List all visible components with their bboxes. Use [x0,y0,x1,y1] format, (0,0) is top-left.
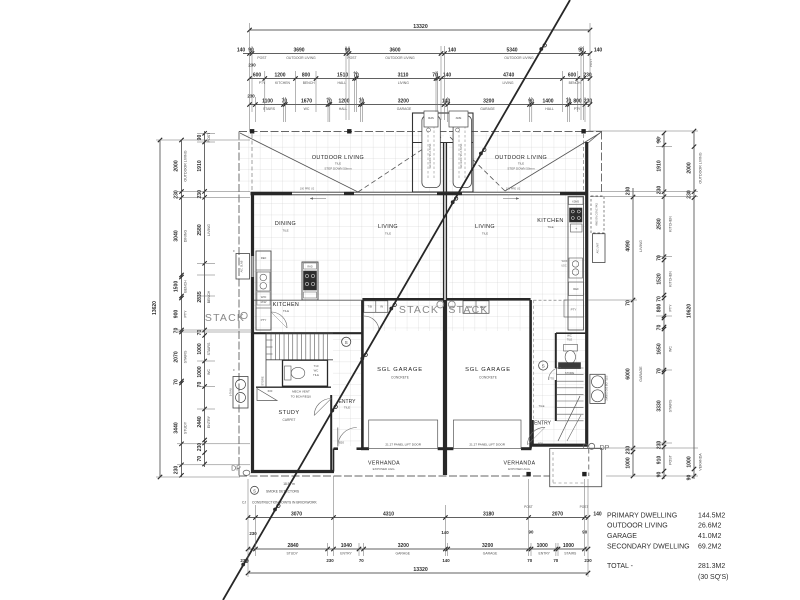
svg-text:REF: REF [573,287,579,291]
svg-text:TILE: TILE [335,162,341,166]
svg-text:70: 70 [527,558,532,563]
garage front wall right jamb garage 2 [521,447,532,450]
hws pad east side [591,196,604,233]
svg-text:LIVING: LIVING [398,81,409,85]
svg-text:70: 70 [359,98,365,104]
svg-text:70: 70 [656,368,662,374]
north wall solid segment dining [251,192,293,195]
svg-text:3040: 3040 [174,230,180,241]
svg-text:3440: 3440 [174,422,180,433]
svg-text:W/D: W/D [261,295,266,299]
svg-text:EXPOSED AGG.: EXPOSED AGG. [508,467,531,471]
svg-text:100 PRE U2: 100 PRE U2 [300,187,315,191]
floor tile grid - primary kitchen band [254,300,361,332]
svg-text:2000: 2000 [686,162,692,173]
floor tile grid - secondary living [449,195,533,300]
entry/study dividing wall primary [330,395,332,471]
hall dashed tile edge secondary [534,299,569,301]
svg-text:3180: 3180 [483,511,494,517]
svg-text:140: 140 [594,47,603,53]
svg-text:VERHANDA: VERHANDA [503,461,535,467]
svg-text:1520: 1520 [656,273,662,284]
north wall band both dwellings - inner face [251,194,589,196]
svg-text:HALL: HALL [338,81,347,85]
svg-text:70: 70 [197,330,203,336]
dimension chain bottom row 3 overall 13320 [248,572,588,574]
understair store primary [257,389,277,401]
fridge secondary kitchen [569,282,584,296]
svg-text:230: 230 [656,186,662,195]
smoke detector primary [342,337,351,346]
svg-text:TILE: TILE [518,162,524,166]
svg-text:3200: 3200 [398,543,409,549]
south wall secondary dwelling [531,444,588,447]
wc secondary toilet [564,345,578,352]
svg-text:4310: 4310 [383,511,394,517]
svg-text:1510: 1510 [337,72,348,78]
svg-text:S: S [253,488,256,493]
svg-text:LIVING: LIVING [639,240,643,252]
svg-text:1000: 1000 [625,457,631,468]
svg-text:RHD: RHD [307,266,312,269]
svg-text:90: 90 [345,47,351,53]
svg-text:KITCHEN: KITCHEN [669,216,673,232]
svg-text:41.0M2: 41.0M2 [698,533,721,540]
extension lines left dimension block [156,139,250,141]
front entry door primary with swing [338,428,357,447]
svg-text:TILE: TILE [344,406,350,410]
svg-text:230: 230 [584,558,592,563]
svg-text:S: S [345,340,348,345]
north wall solid segment east end [560,192,588,195]
kitchen/stair dividing wall primary [254,332,363,334]
svg-text:70: 70 [625,300,631,306]
svg-text:KITCHEN: KITCHEN [275,81,290,85]
svg-text:70: 70 [174,328,180,334]
roof valley line left outdoor living [358,137,441,192]
svg-text:TILE: TILE [282,229,288,233]
fridge space primary kitchen [256,251,271,270]
roof hip line right outdoor living [505,133,600,191]
dimension chain right outer overall [693,131,695,479]
svg-text:REF: REF [261,256,267,260]
svg-text:TILE: TILE [547,225,553,229]
garage 2 north wall [446,298,530,301]
svg-text:BENCH: BENCH [184,280,188,293]
svg-text:OUTDOOR LIVING: OUTDOOR LIVING [385,56,415,60]
wc door secondary 770 [549,368,562,381]
svg-text:TILE: TILE [283,309,289,313]
svg-text:140: 140 [442,558,450,563]
svg-text:90: 90 [197,135,203,141]
svg-text:LIVING: LIVING [475,224,495,230]
svg-text:1000: 1000 [686,456,692,467]
svg-text:TILE: TILE [567,338,573,342]
svg-text:1000: 1000 [197,343,203,354]
svg-text:VERANDA: VERANDA [699,453,703,471]
svg-text:230: 230 [625,446,631,455]
svg-text:WC GDR HPLD TANK: WC GDR HPLD TANK [429,143,432,168]
garage 1 panel lift door [369,420,438,449]
tank dashed content lines [427,126,429,180]
svg-text:140: 140 [593,511,602,517]
svg-text:GARAGE: GARAGE [483,552,498,556]
svg-text:MECH VENT: MECH VENT [292,390,310,394]
dimension chain top row 1 overall 13320 [250,29,591,31]
svg-text:STACK: STACK [399,304,439,316]
svg-text:KITCHEN: KITCHEN [537,218,563,224]
svg-text:10620: 10620 [686,304,692,318]
post top-left 90x90 [250,130,254,134]
garage 2 east wall [529,300,532,449]
svg-text:21.27 PANEL LIFT DOOR: 21.27 PANEL LIFT DOOR [469,443,505,447]
svg-text:S: S [542,364,545,369]
svg-text:3200: 3200 [483,98,494,104]
svg-text:1000: 1000 [537,543,548,549]
svg-text:2440: 2440 [197,416,203,427]
svg-text:230: 230 [686,190,692,199]
svg-text:140: 140 [443,72,452,78]
front wall entry threshold [334,447,339,450]
veranda post left [527,472,531,476]
svg-text:2835: 2835 [197,291,203,302]
svg-text:SGL GARAGE: SGL GARAGE [377,367,423,373]
svg-text:1000: 1000 [563,543,574,549]
svg-text:OUTDOOR LIVING: OUTDOOR LIVING [607,523,668,530]
post line dashed left below top post [251,134,253,191]
svg-text:CONSTRUCTION JOINTS IN BRICKWO: CONSTRUCTION JOINTS IN BRICKWORK [252,501,317,505]
svg-text:PTY: PTY [261,318,267,322]
party wall thick section between garages [443,300,446,475]
svg-text:F: F [233,368,235,372]
svg-text:1000: 1000 [197,366,203,377]
svg-text:OUTDOOR LIVING: OUTDOOR LIVING [184,150,188,181]
svg-text:DP: DP [231,466,241,473]
svg-text:WC: WC [567,334,572,338]
roof valley line right outdoor living [450,137,505,191]
svg-text:90: 90 [528,98,534,104]
north wall solid segment mid post [344,192,354,195]
party wall between dwellings - east leaf [445,143,447,475]
svg-text:OUTDOOR LIVING: OUTDOOR LIVING [495,155,547,161]
svg-text:TILE: TILE [313,373,319,377]
svg-text:2070: 2070 [552,511,563,517]
roof eaves outline bottom [239,475,550,477]
meter box right [449,111,468,127]
svg-text:70: 70 [656,325,662,331]
north wall solid segment party centre [437,192,462,195]
stair flight secondary dwelling [557,367,584,369]
svg-text:STEP DOWN 50mm: STEP DOWN 50mm [324,167,352,171]
roof hip line left outdoor living [240,133,358,192]
water tank right of party wall [453,116,471,188]
corner box secondary kitchen [569,197,584,205]
garage 1 internal door arc [364,316,379,331]
svg-text:SGL GARAGE: SGL GARAGE [465,367,511,373]
svg-text:1670: 1670 [301,98,312,104]
entry door arc primary internal [314,399,331,416]
svg-text:POST: POST [580,505,589,509]
svg-text:70: 70 [197,456,203,462]
svg-text:VERHANDA: VERHANDA [368,461,400,467]
svg-text:6000: 6000 [625,368,631,379]
svg-text:EXPOSED AGG.: EXPOSED AGG. [373,467,396,471]
svg-text:2x45KG GAS BOTTLES: 2x45KG GAS BOTTLES [606,375,609,400]
svg-text:F: F [233,249,235,253]
dimension chain right inner [632,188,634,476]
svg-text:70: 70 [353,72,359,78]
svg-text:DP: DP [600,445,610,452]
svg-text:230: 230 [625,187,631,196]
svg-text:770: 770 [549,377,554,381]
svg-text:OUTDOOR LIVING: OUTDOOR LIVING [286,56,316,60]
cooktop primary island [304,271,317,290]
extension lines right dimension block [588,130,698,132]
svg-text:820: 820 [339,441,344,445]
svg-text:910: 910 [656,456,662,465]
roof eaves outline right upper [601,132,603,194]
svg-text:(30 SQ'S): (30 SQ'S) [698,574,729,581]
svg-text:140: 140 [442,98,451,104]
svg-text:2580: 2580 [656,218,662,229]
svg-text:90: 90 [656,472,662,478]
svg-text:1400: 1400 [542,98,553,104]
roof eaves outline left [238,132,240,477]
cooktop secondary kitchen [570,208,583,222]
svg-text:230: 230 [583,72,592,78]
dimension chain left inner [204,131,206,467]
floor tile grid - secondary kitchen/hall strip [533,195,585,444]
svg-text:LIVING: LIVING [207,224,211,236]
svg-text:WC: WC [314,369,319,373]
svg-text:70: 70 [432,72,438,78]
svg-text:CARPET: CARPET [283,418,296,422]
svg-text:PTY: PTY [669,304,673,312]
svg-text:LIVING: LIVING [502,81,513,85]
svg-text:69.2M2: 69.2M2 [698,544,721,551]
gas bottles east side [590,374,605,403]
vanity secondary dark bench [559,363,581,369]
svg-text:230: 230 [240,558,248,563]
meter box left [424,111,438,127]
dimension chain top row 2 outdoor living [243,53,590,55]
svg-text:GARAGE: GARAGE [639,366,643,382]
floor tile grid - primary living/dining [254,195,444,300]
legend smoke detectors [251,486,259,494]
svg-text:26.6M2: 26.6M2 [698,523,721,530]
svg-text:ENTRY: ENTRY [538,552,550,556]
stack vent circles at party wall [437,301,444,308]
svg-text:90: 90 [248,47,254,53]
svg-text:2840: 2840 [287,543,298,549]
svg-text:T/B: T/B [368,305,372,309]
svg-text:600: 600 [253,72,262,78]
section cut diagonal line across sheet [223,0,570,600]
svg-text:STUDY: STUDY [286,552,298,556]
svg-text:UDC: UDC [561,265,566,268]
kitchen bench secondary along east wall [568,197,584,331]
svg-text:STACK: STACK [448,304,488,316]
svg-text:OUTDOOR LIVING: OUTDOOR LIVING [312,155,364,161]
sink primary kitchen [257,272,270,291]
svg-text:STUDY: STUDY [279,410,300,416]
rangehood mark primary island [304,263,317,269]
svg-text:IN: IN [380,305,383,309]
stair/wc zone south wall primary [256,386,331,388]
svg-text:ENTRY: ENTRY [340,552,352,556]
svg-text:2580: 2580 [197,224,203,235]
floor edge line kitchen/stack band primary [254,299,362,301]
stair arrow lines secondary [558,396,580,441]
svg-text:230: 230 [247,94,255,99]
entry west wall secondary [532,420,534,446]
stair return treads primary [267,339,273,341]
svg-text:3600: 3600 [389,47,400,53]
post top-right 90x90 [582,130,586,134]
svg-text:TOTAL -: TOTAL - [607,563,634,570]
oven secondary kitchen [571,224,583,232]
svg-text:A/C UNIT: A/C UNIT [597,242,600,253]
svg-text:GARAGE: GARAGE [396,552,411,556]
dimension chain bottom row 1 [248,517,588,519]
svg-text:230: 230 [249,531,257,536]
dimension chain left outer overall 13620 [159,140,161,477]
svg-text:WC: WC [669,346,673,352]
step wall study to veranda [333,449,335,472]
svg-text:STORE: STORE [261,376,265,386]
dimension chain top row 4 rooms [250,104,591,106]
svg-text:STEP DOWN 50mm: STEP DOWN 50mm [507,167,535,171]
svg-text:281.3M2: 281.3M2 [698,563,725,570]
svg-text:140: 140 [237,47,246,53]
svg-text:POST: POST [669,454,673,465]
tub in garage 1 corner box [364,301,388,313]
svg-text:ENTRY: ENTRY [534,421,552,427]
garage front wall left jamb garage 1 [361,447,369,450]
floor tile grid - garage 1 storage band [364,301,443,331]
svg-text:13320: 13320 [413,567,428,573]
service enclosure walls at party wall top [413,113,474,192]
svg-text:PTY: PTY [571,308,577,312]
svg-text:70: 70 [566,98,572,104]
svg-text:PTY: PTY [184,310,188,318]
svg-text:1910: 1910 [197,160,203,171]
svg-text:SPR: SPR [456,116,462,120]
svg-text:3070: 3070 [291,511,302,517]
svg-text:OUTDOOR LIVING: OUTDOOR LIVING [504,56,534,60]
floor tile grid - primary entry [333,332,361,446]
floor tile grid - left outdoor living [240,132,444,192]
water tank left of party wall [422,116,440,188]
smoke detector secondary [539,361,548,370]
island bench primary kitchen [302,262,318,300]
svg-text:90: 90 [529,530,534,535]
svg-text:T10: T10 [314,364,319,368]
dimension chain right middle [663,133,665,479]
svg-text:3200: 3200 [398,98,409,104]
roof eaves outline top [239,131,602,133]
svg-text:STACK: STACK [205,312,245,324]
svg-text:BENCH: BENCH [569,81,581,85]
svg-text:70: 70 [174,379,180,385]
dimension chain bottom row 2 [248,548,588,550]
ac unit slab west side [236,254,250,280]
svg-text:140: 140 [448,47,457,53]
pantry door arc primary [271,312,287,328]
svg-text:230: 230 [326,558,334,563]
north wall band both dwellings - outer face [251,191,589,193]
svg-text:STAIRS: STAIRS [669,399,673,412]
svg-text:1650: 1650 [656,343,662,354]
kitchen bench primary along west wall [256,251,271,330]
store box garage 2 corner [463,301,489,314]
secondary internal wall above stairs [556,332,587,334]
svg-text:WOK: WOK [562,260,568,263]
svg-text:HALL: HALL [545,107,554,111]
svg-text:70: 70 [656,296,662,302]
svg-text:600: 600 [268,389,273,393]
pantry primary kitchen [256,308,271,330]
construction joint markers on diagonal [539,44,546,51]
svg-text:1200: 1200 [274,72,285,78]
svg-text:BENCH: BENCH [207,290,211,303]
svg-text:2000: 2000 [174,160,180,171]
svg-text:LIVING: LIVING [378,224,398,230]
floor tile grid - right outdoor living [449,133,586,192]
svg-text:600: 600 [568,72,577,78]
svg-text:3690: 3690 [293,47,304,53]
svg-text:OUTDOOR LIVING: OUTDOOR LIVING [699,152,703,183]
svg-text:4740: 4740 [503,72,514,78]
svg-text:5-TANK: 5-TANK [230,387,233,396]
svg-text:POST: POST [656,136,660,144]
svg-text:A/C SLAB: A/C SLAB [240,260,244,272]
svg-text:SMOKE DETECTORS: SMOKE DETECTORS [266,489,300,493]
svg-text:90: 90 [686,475,692,481]
porch inner dashed [552,452,554,483]
svg-text:70: 70 [359,558,364,563]
svg-text:GARAGE: GARAGE [480,107,495,111]
svg-text:TILE: TILE [385,232,391,236]
svg-text:820: 820 [538,442,543,446]
svg-text:KDMS: KDMS [572,200,579,203]
west external wall primary dwelling [251,193,254,472]
stair hall west wall secondary [555,333,557,368]
stair flight primary dwelling [266,332,333,334]
dimension chain left middle [181,140,183,477]
svg-text:1910: 1910 [656,160,662,171]
svg-text:STAIRS: STAIRS [564,552,577,556]
svg-text:PRIMARY DWELLING: PRIMARY DWELLING [607,513,677,520]
svg-text:1200: 1200 [338,98,349,104]
south wall study [251,470,334,473]
porch secondary dwelling outline [550,449,602,487]
svg-text:5340: 5340 [506,47,517,53]
svg-text:21.27 PANEL LIFT DOOR: 21.27 PANEL LIFT DOOR [385,443,421,447]
svg-text:KITCHEN: KITCHEN [273,302,299,308]
east wall eave return top-right [588,132,602,144]
svg-text:3200: 3200 [482,543,493,549]
svg-text:70: 70 [282,98,288,104]
garage 1 west wall [361,300,364,449]
post top-mid 90x90 [348,130,352,134]
svg-text:SECONDARY DWELLING: SECONDARY DWELLING [607,544,690,551]
svg-text:ENTRY: ENTRY [339,399,357,405]
svg-text:PTY: PTY [574,107,581,111]
svg-text:HWS ON CONC PAD: HWS ON CONC PAD [595,203,598,226]
east external wall secondary dwelling [585,142,588,447]
svg-text:100 PRE U2: 100 PRE U2 [506,187,521,191]
